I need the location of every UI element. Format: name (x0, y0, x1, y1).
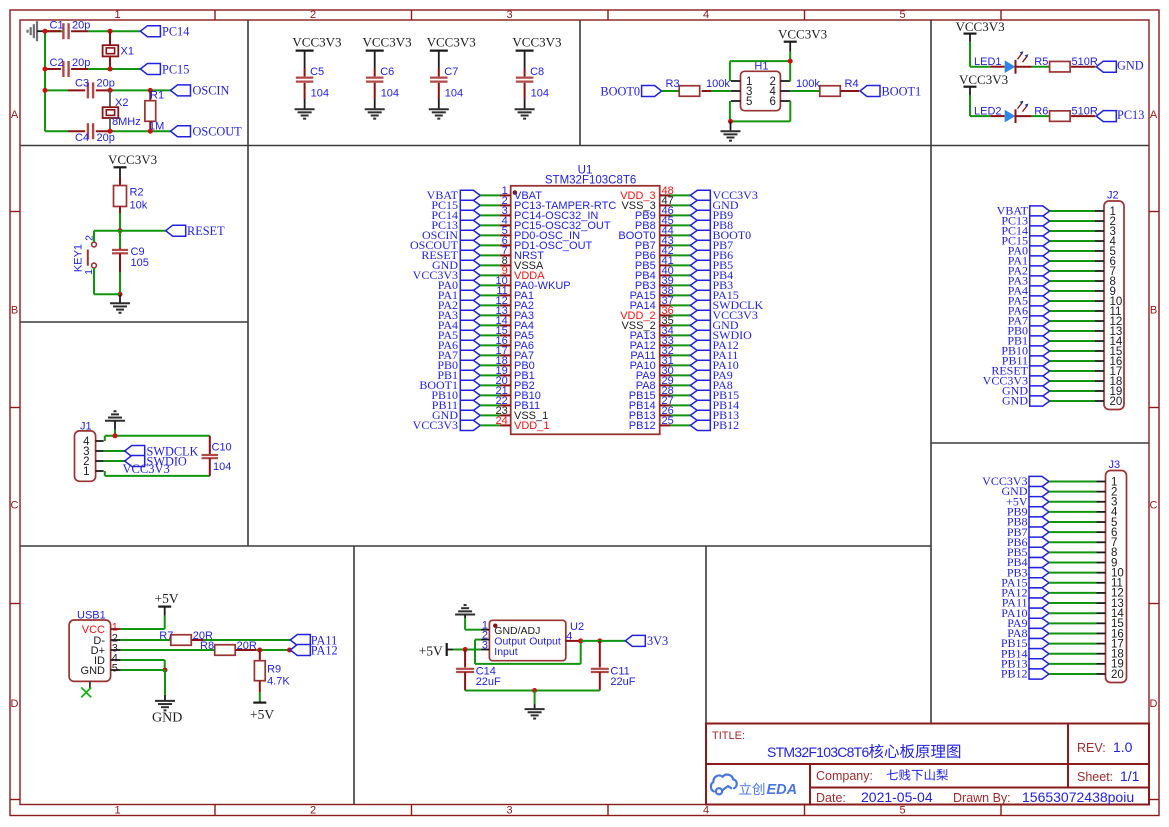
port PC13 (1096, 111, 1116, 122)
U1 pin 4 (PC15-OSC32_OUT) with port PC13 (431, 215, 611, 232)
J2 pin 6 port PA1 (1008, 254, 1116, 268)
ground (429, 108, 449, 110)
svg-text:R6: R6 (1034, 105, 1048, 117)
svg-text:PB12: PB12 (713, 418, 740, 432)
svg-text:100k: 100k (796, 78, 820, 90)
svg-text:X2: X2 (115, 97, 128, 109)
U1 pin 34 (PA13) with port SWDIO (630, 325, 753, 342)
wire (120, 230, 166, 232)
wire (93, 231, 95, 242)
wire (45, 89, 68, 91)
svg-text:VDD_1: VDD_1 (514, 420, 549, 432)
switch KEY1 (92, 242, 97, 247)
svg-text:STM32F103C8T6: STM32F103C8T6 (767, 744, 869, 760)
svg-text:VCC3V3: VCC3V3 (292, 35, 341, 50)
resistor R9 (259, 650, 261, 661)
J2 pin 7 port PA2 (1008, 264, 1116, 278)
ground (295, 108, 315, 110)
svg-text:BOOT1: BOOT1 (882, 84, 922, 98)
svg-text:VCC3V3: VCC3V3 (123, 462, 170, 476)
J3 pin 4 port PB9 (1007, 504, 1118, 518)
J2 pin 11 port PA6 (1008, 304, 1122, 318)
J3 pin 9 port PB4 (1007, 555, 1118, 569)
svg-text:D: D (1150, 698, 1158, 710)
junction (257, 648, 262, 653)
svg-text:+5V: +5V (155, 591, 179, 606)
svg-text:22uF: 22uF (610, 676, 635, 688)
svg-text:C10: C10 (212, 442, 232, 454)
svg-text:20p: 20p (97, 132, 115, 144)
svg-text:1: 1 (114, 9, 120, 21)
header H1 (741, 71, 781, 110)
svg-text:R2: R2 (130, 187, 144, 199)
U1 pin 9 (VDDA) with port VCC3V3 (413, 265, 546, 282)
U1 pin 46 (PB9) with port PB9 (635, 205, 733, 222)
svg-text:1: 1 (83, 466, 89, 478)
wire (121, 669, 165, 671)
svg-text:104: 104 (445, 88, 463, 100)
svg-text:3V3: 3V3 (647, 634, 668, 648)
svg-text:H1: H1 (754, 61, 768, 73)
junction (578, 638, 583, 643)
svg-text:22uF: 22uF (476, 676, 501, 688)
J2 pin 14 port PB1 (1007, 334, 1123, 348)
ground (534, 691, 536, 705)
wire (304, 99, 306, 109)
J3 pin 19 port PB13 (1001, 656, 1124, 670)
svg-text:OSCIN: OSCIN (193, 84, 230, 98)
U1 pin 44 (BOOT0) with port BOOT0 (618, 225, 751, 242)
LED LED1 (990, 66, 1004, 68)
svg-text:+5V: +5V (419, 643, 443, 658)
U1 pin 42 (PB6) with port PB6 (635, 245, 733, 262)
svg-text:C7: C7 (444, 66, 458, 78)
U1 pin 27 (PB14) with port PB14 (629, 395, 739, 412)
svg-text:R9: R9 (267, 664, 281, 676)
U1 pin 47 (VSS_3) with port GND (621, 195, 738, 212)
svg-text:510R: 510R (1072, 105, 1098, 117)
U1 pin 32 (PA11) with port PA11 (630, 345, 738, 362)
U1 pin 28 (PB15) with port PB15 (629, 385, 739, 402)
svg-text:5: 5 (112, 663, 118, 675)
resistor R2 (119, 178, 121, 186)
svg-text:J3: J3 (1109, 459, 1121, 471)
U1 pin 15 (PA5) with port PA5 (438, 325, 534, 342)
ground (36, 21, 38, 41)
U1 pin 14 (PA4) with port PA4 (438, 315, 534, 332)
svg-text:C6: C6 (380, 66, 394, 78)
svg-text:USB1: USB1 (77, 610, 106, 622)
resistor R8 (215, 645, 236, 656)
U1 pin 6 (PD1-OSC_OUT) with port OSCOUT (410, 235, 593, 252)
svg-text:104: 104 (531, 88, 549, 100)
wire (45, 130, 68, 132)
svg-text:104: 104 (381, 88, 399, 100)
svg-text:2021-05-04: 2021-05-04 (861, 789, 933, 805)
wire (464, 618, 466, 630)
wire (104, 436, 106, 441)
J3 pin 5 port PB8 (1007, 515, 1118, 529)
svg-text:3: 3 (506, 805, 512, 817)
ground (119, 294, 121, 303)
svg-text:5: 5 (746, 96, 752, 108)
wire (1016, 66, 1032, 68)
svg-text:5: 5 (899, 805, 905, 817)
svg-text:VCC3V3: VCC3V3 (427, 35, 476, 50)
capacitor C7 (438, 68, 440, 76)
svg-text:R8: R8 (200, 640, 214, 652)
J3 pin 15 port PA9 (1007, 616, 1124, 630)
ground (105, 420, 125, 422)
resistor R6 (1050, 111, 1071, 122)
J2 pin 5 port PA0 (1008, 244, 1116, 258)
wire (44, 31, 46, 131)
svg-text:A: A (1150, 109, 1158, 121)
capacitor C10 (209, 436, 211, 454)
svg-text:STM32F103C8T6: STM32F103C8T6 (545, 175, 636, 187)
J2 pin 9 port PA4 (1008, 284, 1116, 298)
J2 pin 20 port GND (1002, 394, 1122, 408)
J2 pin 2 port PC13 (1001, 214, 1116, 228)
U1 pin 19 (PB1) with port PB1 (437, 365, 534, 382)
port 3V3 (625, 635, 645, 646)
svg-text:6: 6 (770, 96, 776, 108)
svg-text:20p: 20p (72, 20, 90, 32)
resistor R7 (171, 635, 192, 646)
svg-text:R3: R3 (666, 78, 680, 90)
wire (729, 101, 731, 121)
crystal X1 (109, 31, 111, 45)
U1 pin 36 (VDD_2) with port VCC3V3 (620, 305, 758, 322)
resistor R1 (149, 90, 151, 100)
wire (969, 42, 971, 67)
svg-text:510R: 510R (1072, 56, 1098, 68)
port SWDIO (125, 456, 145, 467)
wire (789, 52, 791, 62)
junction (118, 292, 123, 297)
svg-text:J2: J2 (1107, 190, 1119, 202)
U1 pin 7 (NRST) with port RESET (421, 245, 544, 262)
capacitor C11 (599, 641, 601, 668)
junction (43, 88, 48, 93)
svg-text:VCC3V3: VCC3V3 (778, 27, 827, 42)
U1 pin 8 (VSSA) with port GND (432, 255, 544, 272)
capacitor C3 (68, 89, 85, 91)
U1 pin 1 (VBAT) with port VBAT (427, 185, 543, 202)
J2 pin 4 port PC15 (1001, 234, 1116, 248)
resistor R3 (679, 86, 700, 97)
capacitor C14 (464, 650, 466, 668)
svg-text:PC13: PC13 (1117, 108, 1144, 122)
svg-text:OSCOUT: OSCOUT (193, 125, 243, 139)
junction (728, 119, 733, 124)
J3 pin 8 port PB5 (1007, 545, 1118, 559)
U1 pin 29 (PA8) with port PA8 (636, 375, 733, 392)
port PA11 (290, 635, 310, 646)
U1 pin 23 (VSS_1) with port GND (432, 405, 548, 422)
wire (121, 649, 215, 651)
U1 pin 17 (PA7) with port PA7 (438, 345, 534, 362)
svg-text:1/1: 1/1 (1120, 768, 1140, 784)
port PA12 (290, 645, 310, 656)
svg-text:4: 4 (703, 9, 709, 21)
J3 pin 18 port PB14 (1001, 646, 1124, 660)
U1 pin 45 (PB8) with port PB8 (635, 215, 733, 232)
port SWDCLK (125, 446, 145, 457)
wire (256, 649, 290, 651)
svg-text:3: 3 (506, 9, 512, 21)
svg-text:Company:: Company: (816, 769, 873, 783)
logo LCEDA (711, 775, 737, 795)
svg-text:20R: 20R (237, 640, 257, 652)
wire (969, 95, 971, 116)
wire (121, 639, 171, 641)
svg-text:104: 104 (213, 461, 231, 473)
wire (114, 430, 116, 436)
U1 pin 18 (PB0) with port PB0 (437, 355, 534, 372)
regulator U2 (489, 620, 565, 660)
J3 pin 7 port PB6 (1007, 535, 1118, 549)
ground (365, 108, 385, 110)
svg-text:R7: R7 (159, 630, 173, 642)
wire (204, 639, 291, 641)
svg-text:100k: 100k (706, 78, 730, 90)
svg-text:VCC3V3: VCC3V3 (108, 152, 157, 167)
svg-text:Sheet:: Sheet: (1077, 770, 1113, 784)
J3 pin 11 port PA15 (1001, 575, 1123, 589)
U1 pin 26 (PB13) with port PB13 (629, 405, 739, 422)
junction (118, 228, 123, 233)
port BOOT1 (860, 86, 880, 97)
J2 pin 13 port PB0 (1007, 324, 1122, 338)
junction (108, 129, 113, 134)
svg-text:Drawn By:: Drawn By: (953, 791, 1011, 805)
capacitor C9 (119, 231, 121, 248)
svg-text:GND: GND (1002, 394, 1028, 408)
crystal X2 (109, 90, 111, 107)
wire (104, 471, 106, 476)
J3 pin 20 port PB12 (1001, 667, 1124, 681)
svg-text:TITLE:: TITLE: (712, 730, 745, 742)
wire (475, 639, 481, 641)
svg-text:PB12: PB12 (1001, 667, 1028, 681)
svg-text:C: C (11, 500, 19, 512)
resistor R5 (1050, 61, 1071, 71)
U1 pin 30 (PA9) with port PA9 (636, 365, 733, 382)
wire (453, 649, 465, 651)
wire (88, 30, 140, 32)
wire (93, 268, 95, 294)
U1 pin 31 (PA10) with port PA10 (630, 355, 739, 372)
svg-text:REV:: REV: (1077, 741, 1106, 755)
U1 pin 41 (PB5) with port PB5 (635, 255, 733, 272)
J3 pin 13 port PA11 (1002, 596, 1124, 610)
wire (164, 616, 166, 629)
J2 pin 18 port VCC3V3 (983, 374, 1123, 388)
wire (465, 690, 600, 692)
J3 pin 3 port +5V (1006, 494, 1117, 508)
svg-text:C2: C2 (50, 57, 64, 69)
svg-text:2: 2 (310, 805, 316, 817)
J3 pin 14 port PA10 (1001, 606, 1124, 620)
svg-text:20p: 20p (72, 57, 90, 69)
J2 pin 8 port PA3 (1008, 274, 1116, 288)
J2 pin 17 port RESET (991, 364, 1122, 378)
svg-text:VCC3V3: VCC3V3 (363, 35, 412, 50)
port PC14 (140, 26, 160, 37)
wire (113, 89, 171, 91)
wire (104, 460, 125, 462)
junction (43, 29, 48, 34)
svg-text:VCC3V3: VCC3V3 (413, 418, 458, 432)
U1 pin 21 (PB10) with port PB10 (431, 385, 541, 402)
svg-text:PC15: PC15 (162, 62, 189, 76)
U1 pin 2 (PC13-TAMPER-RTC) with port PC15 (431, 195, 616, 212)
port PC15 (140, 64, 160, 75)
wire (113, 130, 171, 132)
svg-text:VCC3V3: VCC3V3 (512, 35, 561, 50)
svg-text:VCC3V3: VCC3V3 (956, 19, 1005, 34)
U1 pin 39 (PB3) with port PB3 (635, 275, 733, 292)
svg-text:GND: GND (152, 711, 182, 726)
svg-text:+5V: +5V (250, 707, 274, 722)
svg-text:8MHz: 8MHz (112, 116, 141, 128)
svg-text:C8: C8 (530, 66, 544, 78)
U1 pin 43 (PB7) with port PB7 (635, 235, 733, 252)
U1 pin 24 (VDD_1) with port VCC3V3 (413, 415, 550, 432)
ground (164, 695, 166, 701)
wire (566, 640, 581, 642)
svg-text:R5: R5 (1034, 56, 1048, 68)
U1 pin 22 (PB11) with port PB11 (432, 395, 540, 412)
J3 pin 6 port PB7 (1007, 525, 1118, 539)
ground (515, 108, 535, 110)
connector USB1 (69, 620, 111, 681)
svg-text:PA12: PA12 (311, 643, 338, 657)
svg-text:B: B (11, 305, 18, 317)
U1 pin 35 (VSS_2) with port GND (621, 315, 738, 332)
svg-text:104: 104 (311, 88, 329, 100)
svg-text:1.0: 1.0 (1113, 739, 1133, 755)
power +5V (259, 692, 261, 701)
svg-text:R1: R1 (150, 90, 164, 102)
port RESET (166, 225, 186, 236)
U1 pin 12 (PA2) with port PA2 (438, 295, 534, 312)
wire (104, 450, 125, 452)
connector J1 (75, 431, 96, 481)
svg-text:2: 2 (310, 9, 316, 21)
capacitor C8 (524, 68, 526, 76)
J2 pin 10 port PA5 (1008, 294, 1123, 308)
wire (729, 61, 731, 81)
ground (455, 614, 475, 616)
wire (45, 30, 63, 32)
capacitor C1 (45, 30, 61, 32)
U1 pin 33 (PA12) with port PA12 (630, 335, 739, 352)
svg-text:Output: Output (529, 636, 561, 648)
port OSCIN (171, 85, 191, 96)
LED LED2 (990, 115, 1004, 117)
wire (88, 68, 140, 70)
svg-text:4.7K: 4.7K (267, 676, 290, 688)
svg-text:X1: X1 (121, 46, 134, 58)
junction (532, 688, 537, 693)
U1 pin 10 (PA0-WKUP) with port PA0 (438, 275, 571, 292)
U1 pin 3 (PC14-OSC32_IN) with port PC14 (431, 205, 598, 222)
capacitor C6 (374, 68, 376, 76)
svg-text:B: B (1150, 305, 1157, 317)
svg-text:KEY1: KEY1 (73, 244, 85, 272)
wire (662, 90, 680, 92)
svg-text:C5: C5 (310, 66, 324, 78)
svg-text:RESET: RESET (187, 224, 225, 238)
J3 pin 12 port PA12 (1001, 586, 1124, 600)
svg-text:C4: C4 (75, 132, 89, 144)
svg-text:10k: 10k (130, 200, 148, 212)
svg-text:BOOT0: BOOT0 (600, 84, 640, 98)
no-connect X (89, 681, 91, 689)
J3 pin 10 port PB3 (1007, 565, 1124, 579)
J2 pin 15 port PB10 (1001, 344, 1122, 358)
junction (113, 433, 118, 438)
capacitor C2 (45, 68, 61, 70)
svg-text:GND: GND (81, 665, 106, 677)
svg-text:20: 20 (1111, 669, 1124, 681)
svg-text:C: C (1150, 500, 1158, 512)
svg-text:J1: J1 (80, 421, 92, 433)
U1 pin 20 (PB2) with port BOOT1 (419, 375, 534, 392)
J2 pin 16 port PB11 (1002, 354, 1123, 368)
svg-text:PC14: PC14 (162, 25, 189, 39)
ground (730, 121, 732, 130)
wire (524, 99, 526, 109)
svg-text:Date:: Date: (816, 791, 846, 805)
svg-text:C3: C3 (75, 78, 89, 90)
svg-text:D: D (11, 698, 19, 710)
U1 pin 16 (PA6) with port PA6 (438, 335, 534, 352)
resistor R4 (820, 86, 841, 97)
svg-text:C1: C1 (50, 20, 64, 32)
wire (711, 90, 731, 92)
svg-text:VCC3V3: VCC3V3 (959, 72, 1008, 87)
J2 pin 1 port VBAT (997, 204, 1116, 218)
port OSCOUT (171, 126, 191, 137)
junction (788, 59, 793, 64)
J3 pin 1 port VCC3V3 (982, 474, 1117, 488)
U1 pin 13 (PA3) with port PA3 (438, 305, 534, 322)
svg-text:15653072438poiu: 15653072438poiu (1022, 789, 1134, 805)
wire (581, 640, 626, 642)
U1 pin 25 (PB12) with port PB12 (629, 415, 739, 432)
junction (43, 67, 48, 72)
svg-text:A: A (11, 109, 19, 121)
wire (1016, 115, 1032, 117)
U1 pin 5 (PD0-OSC_IN) with port OSCIN (422, 225, 580, 242)
U1 pin 37 (PA14) with port SWDCLK (630, 295, 764, 312)
wire (790, 90, 820, 92)
svg-text:PB12: PB12 (629, 420, 656, 432)
junction (463, 647, 468, 652)
J3 pin 16 port PA8 (1007, 626, 1124, 640)
svg-text:20: 20 (1110, 396, 1123, 408)
wire (119, 213, 121, 231)
title block (706, 724, 1149, 805)
U1 pin 11 (PA1) with port PA1 (438, 285, 534, 302)
capacitor C4 (68, 130, 85, 132)
wire (121, 659, 165, 661)
svg-text:24: 24 (496, 415, 508, 427)
svg-text:EDA: EDA (767, 782, 798, 798)
